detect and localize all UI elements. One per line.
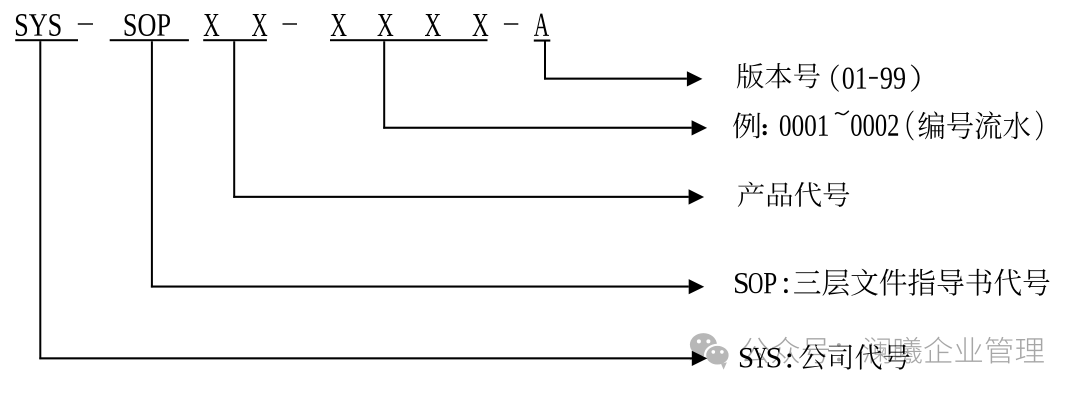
label 0001 [780, 115, 828, 136]
label tilde [835, 111, 849, 115]
label 01 [843, 68, 866, 89]
leader line from SYS (horizontal) [39, 357, 692, 359]
hyphen 2 [283, 23, 298, 25]
leader line from SOP (horizontal) [151, 286, 689, 288]
code letter X2 [252, 14, 267, 36]
label SOP letter P [764, 273, 776, 293]
hyphen 3 [504, 23, 518, 25]
arrowhead to SOP label [689, 279, 705, 294]
arrowhead to 版本号 [687, 71, 703, 86]
watermark wechat icon [690, 333, 730, 370]
code letter X5 [425, 14, 441, 36]
leader line from XX (horizontal) [233, 196, 688, 198]
leader line from SOP (vertical) [151, 41, 153, 287]
leader line from A (horizontal) [544, 78, 687, 80]
label（编号流水） [907, 111, 914, 141]
underline under A [534, 40, 551, 42]
code letter X3 [331, 14, 347, 36]
label fullwidth close paren [911, 65, 920, 92]
code letter X1 [204, 14, 220, 36]
underline under SOP [110, 39, 189, 41]
label SYS letter S1 [740, 348, 752, 368]
hyphen 1 [78, 23, 93, 25]
leader line from XXXX (horizontal) [383, 127, 691, 129]
arrowhead to SYS label [692, 351, 708, 366]
label 公司代号 [799, 344, 909, 370]
label 三层文件指导书代号 [794, 269, 1049, 296]
code segment SOP [125, 14, 170, 36]
label 产品代号 [738, 182, 850, 207]
label 例 [733, 112, 760, 138]
label SYS colon [787, 354, 791, 358]
label 0002 [851, 115, 898, 136]
label 版本号 [737, 63, 820, 89]
code letter X4 [377, 14, 393, 36]
arrowhead to 产品代号 [689, 189, 705, 204]
arrowhead to 例 [692, 120, 708, 135]
label full-width colon after 例 [763, 124, 767, 128]
code letter X6 [472, 14, 488, 36]
underline under X X [203, 39, 267, 41]
label SOP letter S [735, 273, 748, 293]
label SYS letter Y [753, 348, 766, 368]
underline under SYS [15, 39, 78, 41]
leader line from SYS (vertical) [39, 41, 41, 359]
watermark text 公众号：澜曦企业管理 [741, 337, 1043, 364]
label hyphen in 01-99 [869, 77, 878, 79]
label SOP colon [784, 278, 788, 282]
leader line from A (vertical) [544, 41, 546, 79]
code segment A [534, 14, 549, 36]
leader line from XX (vertical) [233, 41, 235, 198]
label SYS letter S2 [768, 348, 781, 368]
code segment SYS [16, 14, 61, 36]
leader line from XXXX (vertical) [383, 41, 385, 128]
label 99 [881, 68, 905, 89]
label fullwidth open paren [831, 65, 839, 92]
underline under X X X X [330, 39, 488, 41]
label SOP letter O [749, 273, 763, 293]
